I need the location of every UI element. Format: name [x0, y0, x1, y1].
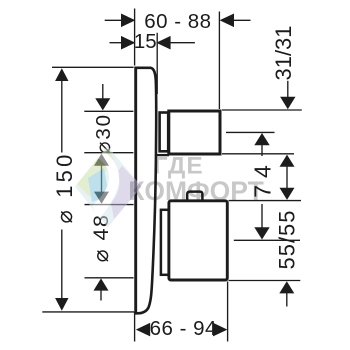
- dimension 74 shaft upper: [261, 144, 263, 156]
- extension line handle center (L5): [234, 239, 300, 241]
- dimension 55/55 arrow up lower: [279, 281, 294, 293]
- extension line knob bottom (L3): [222, 153, 294, 155]
- dimension 55/55 arrow down (double): [280, 188, 295, 200]
- extension line handle top (L4): [229, 200, 302, 202]
- extension line plate face (x=157.2): [156, 33, 158, 94]
- extension line plate bottom (y=311.9): [42, 311, 134, 313]
- volume handle (bottom): [169, 201, 227, 280]
- dimension 60-88 line right tail: [231, 19, 251, 21]
- svg-text:⌀ 150: ⌀ 150: [52, 151, 77, 223]
- thermostat stem (top): [160, 113, 169, 152]
- svg-text:КОМФОРТ: КОМФОРТ: [128, 176, 264, 206]
- dimension 60-88 arrow left: [121, 14, 135, 28]
- logo diamond base: [75, 146, 142, 228]
- dimension 60-88 line left tail: [105, 19, 124, 21]
- dimension D48 lower shaft: [100, 290, 102, 301]
- extension line handle bottom (L6): [229, 280, 301, 282]
- logo lavender facet: [111, 166, 142, 219]
- extension line left bottom (x=134.6): [134, 312, 136, 342]
- handle top tab: [187, 192, 202, 201]
- dimension D48 extension top (y=204.6): [85, 204, 134, 206]
- extension line knob center (L2): [226, 131, 275, 133]
- svg-text:31/31: 31/31: [271, 25, 296, 80]
- dimension D30 upper shaft: [102, 84, 104, 100]
- dimension D30 extension bottom (y=152.7): [84, 152, 133, 154]
- dimension 66-94 arrow left: [136, 323, 150, 337]
- dimension D150 arrow bottom: [55, 298, 68, 311]
- dimension 31/31 shaft: [287, 81, 289, 98]
- extension line wall (x=134.6 top): [134, 9, 136, 66]
- dimension 55/55 arrow up (double): [280, 155, 295, 167]
- dimension D30 arrow up (double): [94, 154, 109, 166]
- watermark logo diamond: [75, 146, 142, 228]
- svg-text:66 - 94: 66 - 94: [150, 317, 217, 340]
- extension line handle face bottom (x=227.6): [227, 282, 229, 342]
- dimension 74 shaft lower: [261, 204, 263, 229]
- extension line knob top (L1): [222, 109, 302, 111]
- dimension D48 arrow down (double): [94, 192, 109, 204]
- dimension D30 arrow down: [95, 98, 110, 110]
- dimension 31/31 arrow down: [280, 97, 295, 109]
- dimension D30-D48 double arrow shaft: [101, 155, 103, 203]
- dimension 15 line left tail: [110, 42, 125, 44]
- dimension 15 line right tail: [168, 42, 195, 44]
- svg-text:⌀30: ⌀30: [92, 113, 115, 154]
- dimension 55/55 double arrow shaft: [286, 156, 288, 199]
- extension line knob face (x=219.4): [218, 12, 220, 110]
- volume stem (bottom): [161, 210, 169, 275]
- dimension 66-94 arrow right: [213, 323, 227, 337]
- escutcheon back edge: [134, 67, 137, 314]
- knob bottom edge extension to plate: [156, 154, 169, 156]
- logo white swoosh: [92, 151, 119, 218]
- dimension D150 line upper: [61, 80, 63, 153]
- thermostat knob (top): [169, 111, 220, 154]
- extension line plate top (y=67.3): [52, 66, 134, 68]
- dimension D48 extension bottom (y=277.8): [85, 277, 134, 279]
- dimension D30 extension top (y=111.3): [84, 110, 133, 112]
- dimension 60-88 arrow right: [220, 14, 234, 28]
- dimension D150 arrow top: [55, 68, 68, 81]
- svg-text:55/55: 55/55: [275, 209, 300, 269]
- logo bright cyan patch: [88, 168, 109, 202]
- dimension 15 arrow left: [121, 36, 135, 50]
- dimension 74 arrow down: [254, 227, 269, 239]
- escutcheon plate outline: [135, 68, 157, 313]
- dimension 55/55 lower shaft: [286, 293, 288, 307]
- dimension D150 line lower: [61, 230, 63, 300]
- dimension D48 arrow up: [94, 278, 109, 290]
- svg-text:15: 15: [134, 30, 157, 53]
- dimension 74 arrow up: [254, 133, 269, 145]
- logo green facet: [77, 148, 114, 197]
- dimension 15 arrow right: [156, 36, 170, 50]
